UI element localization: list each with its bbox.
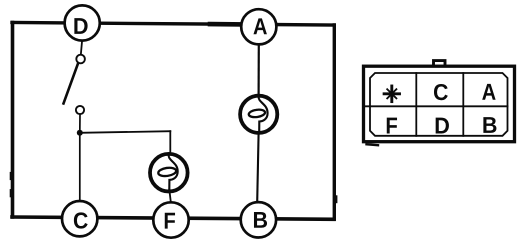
switch S1 lower contact: [76, 106, 84, 114]
connector cell label A: [482, 84, 495, 100]
wire lamp L1 to node B: [257, 133, 258, 202]
wire down to lamp L2: [169, 131, 171, 153]
connector cell label B: [483, 117, 496, 133]
switch S1 blade (open): [64, 64, 78, 104]
node B: [241, 202, 276, 237]
connector J1 inner frame: [370, 73, 508, 136]
switch S1 upper contact: [76, 55, 85, 64]
lamp L1 body: [240, 96, 277, 133]
node F: [153, 202, 188, 237]
connector J1 shell bottom-left tick: [367, 143, 379, 146]
wire right edge: [334, 25, 336, 219]
connector J1 horizontal divider: [365, 105, 508, 107]
node letter C: [74, 212, 88, 228]
connector J1 mounting tab: [434, 61, 446, 68]
wire junction to node C: [79, 133, 81, 200]
wire D to switch: [81, 42, 82, 56]
wire junction to lamp branch (horizontal): [80, 131, 171, 133]
connector pin marker (asterisk): [384, 86, 399, 102]
wire A to lamp L1: [258, 45, 260, 96]
wire left edge: [11, 23, 13, 218]
connector J1 outer shell: [364, 66, 515, 142]
wire lamp L2 to node F: [169, 190, 171, 203]
wire bottom edge: [12, 217, 334, 219]
node D: [65, 5, 100, 40]
node letter B: [254, 212, 267, 228]
connector J1 vertical divider 1: [415, 73, 417, 136]
connector cell label C: [434, 84, 448, 100]
node A: [241, 9, 276, 44]
node C: [62, 201, 97, 236]
wire switch to junction: [79, 114, 81, 133]
connector cell label F: [387, 118, 397, 134]
node letter D: [74, 18, 87, 34]
lamp L2 body: [150, 154, 188, 192]
node letter F: [165, 213, 175, 229]
wire top edge: [12, 23, 334, 26]
connector cell label D: [436, 118, 449, 134]
node letter A: [253, 18, 266, 34]
connector J1 vertical divider 2: [462, 73, 464, 136]
junction node: [77, 130, 83, 136]
